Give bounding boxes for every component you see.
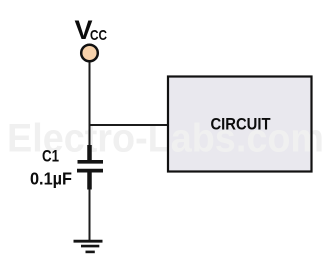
svg-text:0.1µF: 0.1µF xyxy=(30,169,72,189)
svg-text:CIRCUIT: CIRCUIT xyxy=(211,115,272,134)
svg-text:CC: CC xyxy=(90,27,107,44)
svg-text:C1: C1 xyxy=(42,147,59,166)
